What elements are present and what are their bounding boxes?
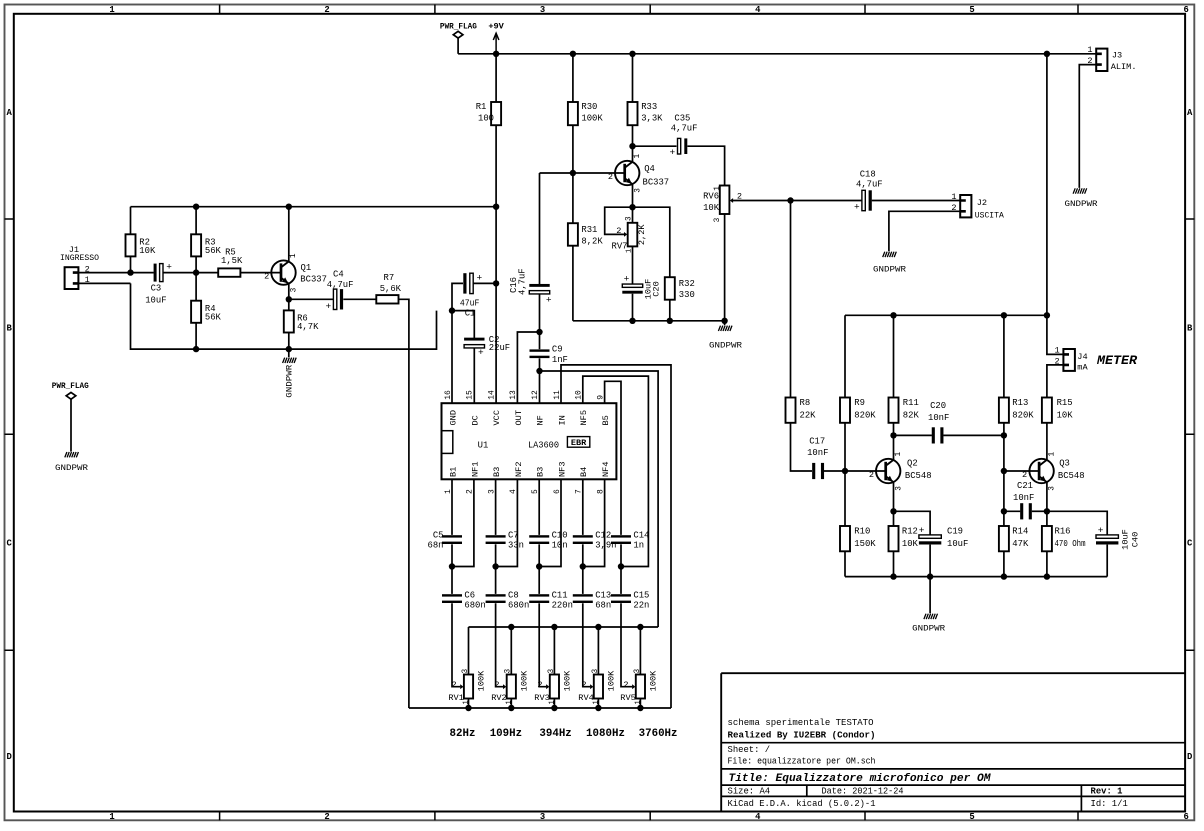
connector J1 INGRESSO xyxy=(60,245,99,289)
svg-text:BC548: BC548 xyxy=(905,471,932,481)
svg-text:U1: U1 xyxy=(478,440,489,450)
svg-text:METER: METER xyxy=(1096,354,1138,368)
capacitor C4 4,7uF xyxy=(289,270,377,312)
resistor R5 1,5K xyxy=(196,248,281,277)
resistor R11 82K xyxy=(889,315,920,435)
pin 8 NF4 xyxy=(596,462,611,494)
svg-text:3: 3 xyxy=(548,669,556,674)
ground GNDPWR Q4 stage xyxy=(709,321,742,351)
svg-text:1: 1 xyxy=(548,700,556,704)
svg-text:3: 3 xyxy=(291,287,299,292)
svg-text:R14: R14 xyxy=(1012,527,1028,537)
resistor R32 330 xyxy=(665,277,695,321)
capacitor C9 1nF xyxy=(530,332,568,371)
svg-text:LA3600: LA3600 xyxy=(528,440,559,450)
svg-text:C5: C5 xyxy=(433,530,444,540)
pin 11 IN xyxy=(553,390,568,426)
svg-text:Q3: Q3 xyxy=(1059,458,1070,468)
svg-text:14: 14 xyxy=(487,390,496,400)
potentiometer RV7 2,2K xyxy=(612,216,647,284)
svg-text:1,5K: 1,5K xyxy=(221,256,243,266)
wire meter stage ground rail xyxy=(845,576,1107,578)
svg-text:2: 2 xyxy=(623,680,628,690)
svg-text:10uF: 10uF xyxy=(947,539,968,549)
svg-text:B: B xyxy=(7,323,13,333)
svg-text:1: 1 xyxy=(634,700,642,704)
svg-text:10nF: 10nF xyxy=(807,448,828,458)
svg-text:4,7uF: 4,7uF xyxy=(327,280,354,290)
svg-text:2: 2 xyxy=(581,680,586,690)
svg-text:Q4: Q4 xyxy=(644,164,655,174)
svg-text:C10: C10 xyxy=(552,530,568,540)
PWR_FLAG top xyxy=(440,22,477,54)
node band 5 junction xyxy=(618,563,624,569)
capacitor C14 1n xyxy=(611,530,649,566)
wire pin 8 NF4 xyxy=(583,479,605,566)
pin 2 NF1 xyxy=(466,462,481,494)
svg-text:C3: C3 xyxy=(151,284,162,294)
svg-text:13: 13 xyxy=(509,390,518,400)
svg-text:GNDPWR: GNDPWR xyxy=(1065,199,1098,209)
svg-text:RV6: RV6 xyxy=(703,192,719,202)
svg-text:Date: 2021-12-24: Date: 2021-12-24 xyxy=(822,787,904,797)
capacitor C3 10uF xyxy=(145,262,199,306)
svg-text:+: + xyxy=(919,525,925,536)
connector J4 METER xyxy=(1055,346,1089,373)
wire +9V drop from J3 node xyxy=(1046,54,1048,316)
svg-text:100K: 100K xyxy=(477,670,487,691)
svg-text:8,2K: 8,2K xyxy=(581,236,603,246)
svg-text:5: 5 xyxy=(969,5,974,15)
svg-text:3: 3 xyxy=(895,486,903,491)
svg-text:Id: 1/1: Id: 1/1 xyxy=(1091,799,1128,809)
potentiometer RV4 100K xyxy=(578,627,616,708)
svg-text:D: D xyxy=(7,752,12,762)
svg-text:1: 1 xyxy=(463,700,471,704)
svg-text:1: 1 xyxy=(109,812,114,822)
svg-text:GNDPWR: GNDPWR xyxy=(284,365,294,398)
svg-text:VCC: VCC xyxy=(492,410,502,425)
svg-text:A: A xyxy=(1187,108,1193,118)
resistor R10 150K xyxy=(840,471,876,577)
node band 4 junction xyxy=(580,563,586,569)
wire pot wiper bus xyxy=(469,626,659,628)
capacitor C13 68n xyxy=(573,567,611,687)
svg-text:2: 2 xyxy=(869,470,874,480)
capacitor C12 3,9n xyxy=(573,479,617,566)
svg-text:+: + xyxy=(478,347,484,358)
capacitor C5 68n xyxy=(428,479,462,566)
pin 14 VCC xyxy=(487,390,502,426)
ground GNDPWR bottom-left xyxy=(55,452,88,473)
resistor R15 10K xyxy=(1042,398,1073,423)
svg-text:C19: C19 xyxy=(947,527,963,537)
pin 1 B1 xyxy=(444,467,459,494)
wire pin 6 NF3 xyxy=(539,479,561,566)
wire Q4 emitter node xyxy=(629,204,635,210)
svg-text:2: 2 xyxy=(1022,470,1027,480)
svg-text:1: 1 xyxy=(895,452,903,457)
svg-text:IN: IN xyxy=(557,415,567,425)
capacitor C8 680n xyxy=(486,567,530,687)
svg-text:+: + xyxy=(166,262,172,273)
transistor Q1 BC337 xyxy=(264,207,327,300)
resistor R9 820K xyxy=(840,315,876,471)
svg-text:5: 5 xyxy=(969,812,974,822)
svg-text:C20: C20 xyxy=(652,281,662,296)
svg-text:C12: C12 xyxy=(595,530,611,540)
svg-text:C40: C40 xyxy=(1131,532,1141,547)
wire meter +9V rail xyxy=(845,314,1047,316)
svg-text:10n: 10n xyxy=(552,541,568,551)
wire signal to meter stage xyxy=(790,201,792,398)
node GND junction xyxy=(449,307,455,313)
svg-text:1080Hz: 1080Hz xyxy=(586,728,625,740)
svg-text:B5: B5 xyxy=(601,415,611,425)
svg-text:GNDPWR: GNDPWR xyxy=(912,624,945,634)
wire NF feedback to pots bus xyxy=(540,371,659,627)
svg-text:R30: R30 xyxy=(581,102,597,112)
wire J4 pin2 to R15 xyxy=(1047,365,1064,398)
wire pin 4 NF2 xyxy=(496,479,518,566)
wire pin 9 B5 loop xyxy=(605,381,621,535)
svg-text:2: 2 xyxy=(537,680,542,690)
wire R32 branch xyxy=(633,207,670,277)
power +9V symbol xyxy=(488,22,504,54)
wire pin12 NF xyxy=(539,371,541,403)
svg-text:GNDPWR: GNDPWR xyxy=(709,340,742,350)
svg-text:+: + xyxy=(670,147,676,158)
svg-text:3: 3 xyxy=(634,188,642,193)
svg-text:A: A xyxy=(7,108,13,118)
wire J2 pin2 to ground xyxy=(889,211,960,251)
svg-text:EBR: EBR xyxy=(571,438,587,448)
wire bottom IN bus xyxy=(409,707,671,709)
svg-text:820K: 820K xyxy=(1012,411,1034,421)
svg-text:NF3: NF3 xyxy=(557,462,567,477)
svg-text:C9: C9 xyxy=(552,345,563,355)
wire DC branch xyxy=(452,311,474,340)
svg-text:+: + xyxy=(477,272,483,283)
capacitor C15 22n xyxy=(611,567,649,687)
ground GNDPWR meter stage xyxy=(912,577,945,634)
svg-text:4,7uF: 4,7uF xyxy=(671,124,698,134)
svg-text:+: + xyxy=(854,202,860,213)
svg-text:1: 1 xyxy=(634,154,642,159)
pin 9 B5 xyxy=(596,395,611,426)
svg-text:2: 2 xyxy=(608,172,613,182)
ground GNDPWR under J3 xyxy=(1065,188,1098,209)
svg-text:15: 15 xyxy=(466,390,475,400)
capacitor C40 10uF xyxy=(1047,511,1141,576)
svg-text:BC337: BC337 xyxy=(643,178,670,188)
svg-text:+9V: +9V xyxy=(488,22,504,32)
wire pin16 GND xyxy=(451,311,453,404)
svg-text:10nF: 10nF xyxy=(928,413,949,423)
svg-text:C21: C21 xyxy=(1017,481,1033,491)
svg-text:4,7uF: 4,7uF xyxy=(856,180,883,190)
svg-text:16: 16 xyxy=(444,390,453,400)
ground GNDPWR under J2 xyxy=(873,252,906,275)
wire J3 pin2 to ground xyxy=(1079,65,1096,188)
potentiometer RV6 10K xyxy=(703,186,790,321)
svg-text:C4: C4 xyxy=(333,270,344,280)
svg-text:2,2K: 2,2K xyxy=(637,224,647,245)
svg-text:6: 6 xyxy=(1184,5,1189,15)
svg-text:22K: 22K xyxy=(800,411,817,421)
svg-text:J4: J4 xyxy=(1077,352,1087,362)
connector J3 ALIM. xyxy=(1087,45,1136,72)
title block xyxy=(721,673,1185,811)
pin 12 NF xyxy=(531,390,546,426)
svg-text:680n: 680n xyxy=(464,601,485,611)
resistor R30 100K xyxy=(568,54,603,173)
capacitor C20 10nF (coupling) xyxy=(894,401,1004,444)
svg-text:R10: R10 xyxy=(854,527,870,537)
svg-text:10nF: 10nF xyxy=(1013,493,1034,503)
svg-text:NF5: NF5 xyxy=(579,410,589,425)
pin 13 OUT xyxy=(509,390,524,426)
svg-text:109Hz: 109Hz xyxy=(490,728,522,740)
svg-text:1: 1 xyxy=(1048,452,1056,457)
svg-text:470 Ohm: 470 Ohm xyxy=(1055,539,1086,549)
wire OUT coupling column xyxy=(539,173,541,284)
svg-text:1: 1 xyxy=(1087,45,1092,55)
wire +9V top rail xyxy=(458,53,1096,55)
svg-text:394Hz: 394Hz xyxy=(539,728,571,740)
potentiometer RV3 100K xyxy=(534,627,572,708)
wire pin 2 NF1 xyxy=(452,479,474,566)
capacitor C20 10uF (electrolytic) xyxy=(622,273,661,320)
svg-text:+: + xyxy=(326,301,332,312)
svg-text:C6: C6 xyxy=(464,590,475,600)
svg-text:1: 1 xyxy=(951,192,956,202)
svg-text:82K: 82K xyxy=(903,411,920,421)
capacitor C18 4,7uF xyxy=(791,169,961,212)
svg-text:150K: 150K xyxy=(854,539,876,549)
wire pin 10 NF5 loop xyxy=(583,376,649,566)
svg-text:47K: 47K xyxy=(1012,539,1029,549)
svg-text:3: 3 xyxy=(505,669,513,674)
svg-text:R15: R15 xyxy=(1057,398,1073,408)
svg-text:22n: 22n xyxy=(633,601,649,611)
potentiometer RV1 100K xyxy=(448,627,486,708)
svg-text:100K: 100K xyxy=(581,114,603,124)
potentiometer RV2 100K xyxy=(491,627,529,708)
svg-text:GNDPWR: GNDPWR xyxy=(55,463,88,473)
svg-text:R32: R32 xyxy=(679,279,695,289)
capacitor C6 680n xyxy=(442,567,486,687)
svg-text:+: + xyxy=(1098,525,1104,536)
svg-text:100K: 100K xyxy=(649,670,659,691)
svg-text:10K: 10K xyxy=(703,203,720,213)
svg-text:47uF: 47uF xyxy=(460,298,480,308)
capacitor C1 47uF xyxy=(452,272,496,318)
wire ground rail input stage xyxy=(131,283,437,349)
svg-text:820K: 820K xyxy=(854,411,876,421)
svg-text:3: 3 xyxy=(1049,486,1057,491)
svg-text:GNDPWR: GNDPWR xyxy=(873,264,906,274)
svg-text:1: 1 xyxy=(505,700,513,704)
svg-text:mA: mA xyxy=(1077,363,1088,373)
svg-text:C8: C8 xyxy=(508,590,519,600)
svg-text:R1: R1 xyxy=(476,102,487,112)
resistor R4 56K xyxy=(191,273,221,350)
svg-text:2: 2 xyxy=(737,192,742,202)
potentiometer RV5 100K xyxy=(620,627,658,708)
svg-text:C35: C35 xyxy=(674,113,690,123)
svg-text:68n: 68n xyxy=(428,541,444,551)
svg-text:NF: NF xyxy=(536,415,546,425)
svg-text:68n: 68n xyxy=(595,601,611,611)
svg-text:33n: 33n xyxy=(508,541,524,551)
resistor R1 100 xyxy=(476,54,501,403)
svg-text:5,6K: 5,6K xyxy=(380,284,402,294)
transistor Q2 BC548 xyxy=(869,435,932,511)
svg-text:1: 1 xyxy=(290,253,298,258)
svg-text:Sheet: /: Sheet: / xyxy=(728,745,771,755)
resistor R2 10K xyxy=(126,207,156,273)
svg-text:56K: 56K xyxy=(205,246,222,256)
svg-text:DC: DC xyxy=(470,415,480,425)
PWR_FLAG bottom-left xyxy=(52,381,89,452)
capacitor C2 22uF xyxy=(464,335,510,403)
svg-text:100K: 100K xyxy=(607,670,617,691)
transistor Q3 BC548 xyxy=(1022,423,1085,512)
svg-text:Q2: Q2 xyxy=(907,458,918,468)
svg-text:INGRESSO: INGRESSO xyxy=(60,253,99,263)
pin 5 B3 xyxy=(531,467,546,494)
svg-text:220n: 220n xyxy=(552,601,573,611)
node band 2 junction xyxy=(492,563,498,569)
svg-text:B4: B4 xyxy=(579,467,589,477)
svg-text:BC337: BC337 xyxy=(300,274,327,284)
pin 16 GND xyxy=(444,390,459,426)
capacitor C19 10uF xyxy=(894,511,969,576)
svg-text:ALIM.: ALIM. xyxy=(1111,62,1137,72)
resistor R13 820K xyxy=(999,315,1034,435)
svg-text:680n: 680n xyxy=(508,601,529,611)
svg-text:3: 3 xyxy=(592,669,600,674)
svg-text:B3: B3 xyxy=(492,467,502,477)
IC U1 LA3600 xyxy=(442,403,617,479)
svg-text:Rev: 1: Rev: 1 xyxy=(1091,787,1123,797)
pin 10 NF5 xyxy=(575,390,590,426)
svg-text:100: 100 xyxy=(478,114,494,124)
svg-text:R7: R7 xyxy=(384,273,395,283)
svg-text:Q1: Q1 xyxy=(301,263,312,273)
svg-text:File: equalizzatore per OM.sch: File: equalizzatore per OM.sch xyxy=(728,757,876,767)
svg-text:GND: GND xyxy=(448,410,458,425)
wire RV7 wiper loop xyxy=(605,207,633,234)
svg-text:3: 3 xyxy=(634,669,642,674)
svg-text:R33: R33 xyxy=(641,102,657,112)
svg-text:NF4: NF4 xyxy=(601,462,611,477)
node +9V junctions on rail xyxy=(493,51,499,57)
wire R7 to IN bus xyxy=(399,299,409,708)
svg-text:3: 3 xyxy=(540,812,545,822)
connector J2 USCITA xyxy=(951,192,1004,221)
svg-text:R11: R11 xyxy=(903,398,919,408)
svg-text:R9: R9 xyxy=(854,398,865,408)
svg-text:C11: C11 xyxy=(552,590,568,600)
capacitor C35 4,7uF xyxy=(633,113,725,185)
svg-text:C15: C15 xyxy=(633,590,649,600)
svg-text:1n: 1n xyxy=(633,541,644,551)
resistor R33 3,3K xyxy=(628,54,664,146)
resistor R12 10K xyxy=(889,511,919,576)
pin 15 DC xyxy=(466,390,481,426)
capacitor C7 33n xyxy=(486,479,524,566)
capacitor C21 10nF xyxy=(1004,481,1047,519)
svg-text:82Hz: 82Hz xyxy=(450,728,476,740)
svg-text:1nF: 1nF xyxy=(552,355,568,365)
pin 3 B3 xyxy=(487,467,502,494)
svg-text:R31: R31 xyxy=(581,225,597,235)
svg-text:10K: 10K xyxy=(902,539,919,549)
svg-text:schema sperimentale TESTATO: schema sperimentale TESTATO xyxy=(728,718,874,728)
svg-text:10uF: 10uF xyxy=(145,296,166,306)
svg-text:B1: B1 xyxy=(448,467,458,477)
svg-text:R8: R8 xyxy=(800,398,811,408)
svg-text:56K: 56K xyxy=(205,312,222,322)
resistor R7 5,6K xyxy=(376,273,401,304)
svg-text:R13: R13 xyxy=(1012,398,1028,408)
svg-text:4: 4 xyxy=(755,5,761,15)
resistor R8 22K xyxy=(786,398,817,472)
svg-text:Size: A4: Size: A4 xyxy=(728,787,771,797)
svg-text:2: 2 xyxy=(324,812,329,822)
svg-text:C17: C17 xyxy=(809,436,825,446)
svg-text:Title: Equalizzatore microfoni: Title: Equalizzatore microfonico per OM xyxy=(729,773,991,785)
node band 3 junction xyxy=(536,563,542,569)
svg-text:C: C xyxy=(7,539,13,549)
wire pin13 OUT branch xyxy=(517,332,539,403)
transistor Q4 BC337 xyxy=(608,146,669,223)
capacitor C17 10nF xyxy=(807,436,886,479)
svg-text:NF1: NF1 xyxy=(470,462,480,477)
svg-text:2: 2 xyxy=(324,5,329,15)
svg-text:C: C xyxy=(1187,539,1193,549)
svg-text:1: 1 xyxy=(626,249,634,253)
svg-text:3: 3 xyxy=(714,217,722,222)
resistor R16 470 Ohm xyxy=(1042,511,1086,576)
pin 7 B4 xyxy=(575,467,590,494)
svg-text:J2: J2 xyxy=(977,198,987,208)
svg-text:J3: J3 xyxy=(1112,51,1122,61)
svg-text:R16: R16 xyxy=(1055,527,1071,537)
pin 4 NF2 xyxy=(509,462,524,494)
svg-text:6: 6 xyxy=(1184,812,1189,822)
capacitor C11 220n xyxy=(529,567,573,687)
capacitor C10 10n xyxy=(529,479,567,566)
wire OUT to Q4 base xyxy=(540,172,625,174)
svg-text:D: D xyxy=(1187,752,1192,762)
wire R13 to Q3 base xyxy=(1004,435,1039,471)
svg-text:R12: R12 xyxy=(902,527,918,537)
svg-text:10uF: 10uF xyxy=(1121,529,1131,550)
svg-text:3: 3 xyxy=(462,669,470,674)
svg-text:1: 1 xyxy=(714,186,722,191)
resistor R3 56K xyxy=(191,207,221,273)
svg-text:B3: B3 xyxy=(536,467,546,477)
svg-text:3: 3 xyxy=(626,216,634,221)
svg-text:2: 2 xyxy=(616,226,621,236)
wire bias rail xyxy=(131,206,497,208)
svg-text:4,7K: 4,7K xyxy=(297,322,319,332)
resistor R6 4,7K xyxy=(284,299,319,349)
svg-text:C13: C13 xyxy=(595,590,611,600)
